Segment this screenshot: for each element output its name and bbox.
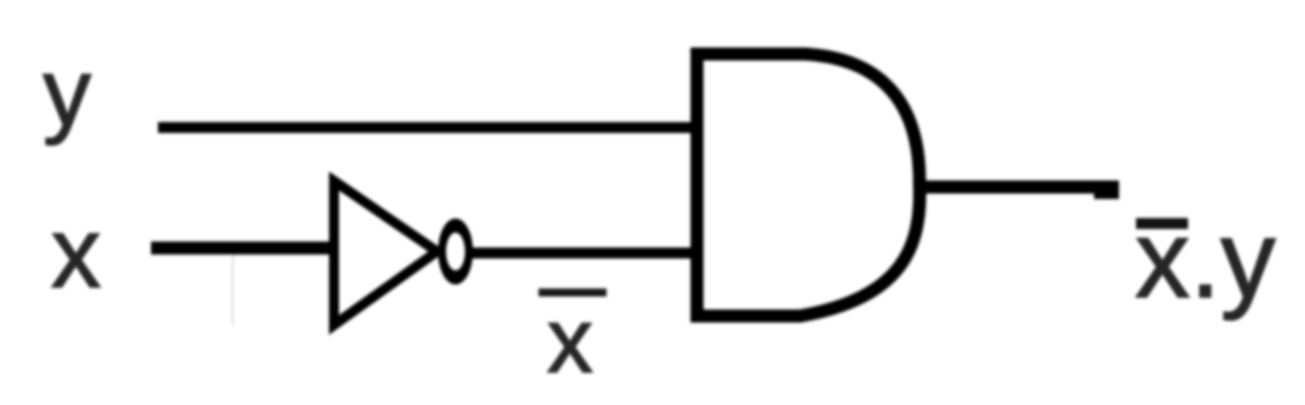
wire inverter output (node xbar) to AND gate bottom input [470, 248, 697, 259]
inverter U1 bubble [438, 219, 473, 285]
svg-text:x: x [51, 197, 101, 309]
node xbar label overbar [539, 289, 607, 297]
artifact faint vertical line [232, 255, 235, 325]
wire output end blob [1094, 184, 1119, 199]
AND gate U2 body [697, 54, 920, 316]
node output label overbar [1136, 218, 1188, 229]
wire y input to AND gate top input [158, 122, 697, 133]
svg-text:y: y [43, 39, 91, 146]
wire AND gate output [919, 181, 1119, 194]
wire x input to inverter [151, 242, 339, 255]
svg-text:x: x [547, 290, 593, 392]
svg-text:x.y: x.y [1135, 198, 1276, 321]
inverter U1 triangle [334, 181, 437, 325]
